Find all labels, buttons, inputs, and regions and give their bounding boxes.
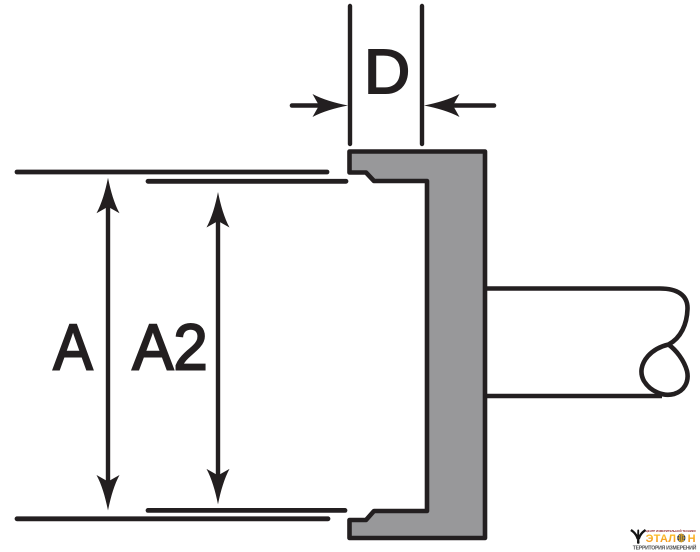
extension line D left [348,6,352,144]
D right arrow line [450,103,494,108]
extension line A bottom (outer) [17,516,328,521]
extension line D right [420,6,424,144]
D left arrowhead [313,94,349,117]
svg-text:ЭТАЛ: ЭТАЛ [646,533,677,545]
svg-text:D: D [364,38,410,107]
shaft bottom edge [486,394,662,399]
svg-text:A: A [53,312,93,384]
dimension line A shaft [106,204,110,484]
extension line A2 bottom (inner) [148,508,345,513]
logo: globe O [677,534,685,542]
D right arrowhead [424,94,460,117]
extension line A2 top (inner) [148,179,346,184]
logo: trident symbol [632,530,645,543]
A2 top arrowhead [207,192,230,228]
D left arrow line [292,103,322,108]
shaft top edge with S-break and teardrop loop [486,289,688,395]
svg-text:Н: Н [688,533,696,545]
svg-text:A2: A2 [132,312,208,384]
A2 bottom arrowhead [207,469,230,505]
svg-text:ТЕРРИТОРИЯ ИЗМЕРЕНИЙ: ТЕРРИТОРИЯ ИЗМЕРЕНИЙ [633,543,697,551]
component body: C-shaped tip cross-section (gray) [350,152,486,539]
extension line A top (outer) [17,170,327,175]
dimension line A2 shaft [216,217,220,479]
A top arrowhead [97,178,120,214]
A bottom arrowhead [97,475,120,511]
